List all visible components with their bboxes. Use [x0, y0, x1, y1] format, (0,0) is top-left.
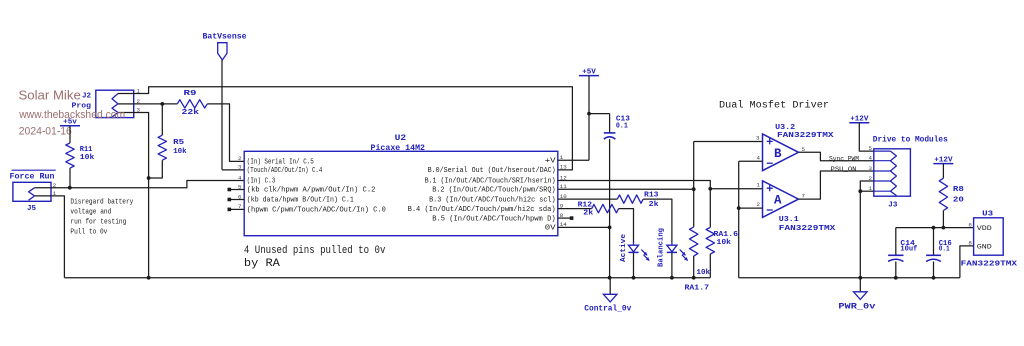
- title Dual Mosfet Driver: [719, 100, 829, 112]
- text www.thebackshed.com: [18, 109, 125, 121]
- power +12V (R8): [933, 156, 953, 164]
- svg-text:0V: 0V: [545, 225, 557, 233]
- svg-text:B.0/Serial Out (Out/hserout/DA: B.0/Serial Out (Out/hserout/DAC): [428, 167, 556, 175]
- svg-text:(Touch/ADC/Out/In) C.4: (Touch/ADC/Out/In) C.4: [247, 167, 322, 175]
- wire U3 GND: [960, 246, 974, 278]
- wire B output Sync_PWM: [799, 152, 874, 160]
- svg-text:1: 1: [137, 88, 141, 95]
- wire C14 top: [895, 228, 897, 256]
- wire J2 pin1 to U2 pin13 (serial out): [134, 87, 573, 170]
- svg-text:(In) Serial In/ C.5: (In) Serial In/ C.5: [247, 159, 314, 167]
- svg-text:B.1 (In/Out/ADC/Touch/SRI/hser: B.1 (In/Out/ADC/Touch/SRI/hserin): [425, 178, 556, 186]
- wire pwr 0v rail: [739, 277, 960, 279]
- svg-text:Force Run: Force Run: [10, 172, 55, 181]
- junction A minus: [737, 206, 741, 210]
- svg-text:10k: 10k: [717, 239, 732, 247]
- svg-text:B.2 (In/Out/ADC/Touch/pwm/SRQ): B.2 (In/Out/ADC/Touch/pwm/SRQ): [432, 186, 555, 194]
- svg-text:10k: 10k: [80, 154, 95, 162]
- svg-text:3: 3: [238, 164, 242, 171]
- wire LED Balancing cathode: [671, 253, 673, 278]
- resistor R5 10k: [158, 135, 187, 160]
- svg-text:5: 5: [869, 145, 873, 152]
- svg-text:GND: GND: [977, 243, 992, 250]
- svg-text:0.1: 0.1: [616, 123, 628, 131]
- wire +5v to R11: [69, 126, 71, 143]
- note disregard battery: [70, 198, 134, 236]
- U3 pin numbers: [968, 221, 972, 246]
- svg-text:(kb data/hpwm B/Out/In) C.1: (kb data/hpwm B/Out/In) C.1: [247, 197, 354, 205]
- capacitor C14 10uf: [888, 240, 918, 262]
- svg-text:22k: 22k: [182, 109, 200, 117]
- svg-text:1: 1: [757, 182, 761, 189]
- wire C16 bottom: [933, 262, 935, 278]
- op IC U2 Picaxe 14M2 box: [244, 135, 558, 236]
- svg-text:4 Unused pins pulled to 0v: 4 Unused pins pulled to 0v: [244, 245, 386, 257]
- U2 pin5 stub: [228, 188, 245, 192]
- svg-text:PWR_0v: PWR_0v: [838, 303, 875, 312]
- svg-text:3: 3: [869, 165, 873, 172]
- net label PSU_ON: [831, 166, 857, 174]
- svg-text:B: B: [774, 147, 782, 161]
- wire R9 to U2 pin2: [207, 104, 244, 161]
- wire RA1.7 bottom: [693, 256, 695, 278]
- text 2024-01-16: [19, 126, 72, 138]
- wire VDD line: [896, 227, 974, 229]
- svg-text:13: 13: [560, 164, 567, 171]
- svg-text:Active: Active: [620, 233, 628, 262]
- wire +12V to J3 pin5: [859, 123, 874, 151]
- wire C13 to 0V rail: [609, 139, 611, 278]
- wire A minus: [739, 207, 763, 209]
- resistor RA1.6 10k: [706, 227, 738, 254]
- junction pin14/0V: [608, 226, 612, 230]
- wire R12 to LED Active: [619, 209, 634, 243]
- svg-text:(kb clk/hpwm A/pwm/Out/In) C.2: (kb clk/hpwm A/pwm/Out/In) C.2: [247, 187, 376, 195]
- svg-text:Balancing: Balancing: [658, 228, 666, 267]
- resistor R12 2k: [578, 201, 619, 217]
- LED Balancing: [658, 228, 689, 267]
- wire J5 pin1 to ground rail: [51, 196, 64, 278]
- wire R5 bottom jog: [149, 160, 163, 178]
- svg-text:B.5 (In/Out/ADC/Touch/hpwm D): B.5 (In/Out/ADC/Touch/hpwm D): [432, 215, 555, 223]
- J5 pin numbers: [53, 182, 57, 197]
- svg-text:10uf: 10uf: [900, 246, 917, 254]
- svg-text:B.3 (In/Out/ADC/Touch/hi2c scl: B.3 (In/Out/ADC/Touch/hi2c scl): [429, 196, 556, 204]
- svg-text:Contral_0v: Contral_0v: [584, 303, 631, 313]
- junction pwr rail C16: [932, 276, 936, 280]
- svg-text:VDD: VDD: [977, 225, 992, 232]
- svg-text:voltage and: voltage and: [70, 208, 111, 216]
- svg-text:BatVsense: BatVsense: [203, 33, 247, 42]
- svg-text:Sync_PWM: Sync_PWM: [829, 156, 859, 164]
- svg-text:Disregard battery: Disregard battery: [70, 198, 134, 206]
- svg-text:4: 4: [757, 155, 761, 162]
- wire R11 bottom: [69, 168, 71, 188]
- J2 pin numbers: [137, 88, 141, 114]
- svg-text:J2: J2: [82, 93, 92, 101]
- junction pwr rail C14: [894, 276, 898, 280]
- wire R13 to LED Balancing: [643, 199, 672, 242]
- wire driver minus rail: [739, 161, 763, 277]
- svg-text:3: 3: [756, 134, 760, 141]
- svg-text:R9: R9: [184, 90, 198, 98]
- svg-text:2024-01-16: 2024-01-16: [19, 126, 72, 138]
- wire J2 pin3 to ground rail: [134, 113, 149, 278]
- connector J5: [13, 182, 51, 213]
- svg-text:R5: R5: [173, 139, 185, 147]
- net label Sync_PWM: [829, 156, 859, 164]
- svg-text:B.4 (In/Out/ADC/Touch/pwm/hi2c: B.4 (In/Out/ADC/Touch/pwm/hi2c sda): [408, 206, 556, 214]
- svg-text:U3: U3: [982, 210, 994, 218]
- svg-text:J3: J3: [888, 202, 898, 210]
- svg-text:+12V: +12V: [934, 156, 953, 164]
- wire BatVsense to U2 pin3: [222, 60, 244, 170]
- connector J3 Drive to Modules: [874, 149, 911, 210]
- svg-text:U3.1: U3.1: [779, 216, 799, 224]
- svg-text:2k: 2k: [583, 209, 593, 217]
- power +12V (J3): [849, 116, 869, 124]
- U3.2 pin numbers: [756, 134, 805, 161]
- wire C16 top: [933, 228, 935, 256]
- J3 pin numbers: [869, 145, 873, 192]
- op-amp driver U3.1 A: [763, 181, 836, 233]
- resistor RA1.7 10k: [685, 227, 711, 293]
- svg-text:10k: 10k: [697, 269, 711, 277]
- svg-text:by RA: by RA: [244, 258, 281, 270]
- wire U2 pin9 to R12: [558, 208, 592, 210]
- junction R11/J5 wire: [68, 186, 72, 190]
- junction J3 pin1: [858, 189, 862, 193]
- svg-text:J5: J5: [27, 205, 37, 213]
- wire J5 pin2 to U2 pin4: [51, 181, 244, 188]
- svg-text:run for testing: run for testing: [70, 218, 126, 226]
- capacitor C16 0.1: [926, 240, 952, 262]
- wire C14 bottom: [895, 262, 897, 278]
- svg-text:FAN3229TMX: FAN3229TMX: [961, 260, 1018, 268]
- svg-text:FAN3229TMX: FAN3229TMX: [779, 225, 836, 233]
- svg-text:2: 2: [757, 201, 761, 208]
- wire +12V to R8: [942, 164, 944, 179]
- wire J3 pin1: [860, 190, 874, 192]
- junction R5/J2pin3 wire: [147, 176, 151, 180]
- svg-text:20: 20: [953, 196, 965, 204]
- text Solar Mike: [19, 88, 81, 103]
- net flag BatVsense: [203, 33, 247, 60]
- resistor R11 10k: [66, 143, 95, 168]
- svg-text:PSU_ON: PSU_ON: [831, 166, 857, 174]
- note unused pins: [244, 245, 386, 270]
- wire A output PSU_ON: [799, 171, 874, 199]
- svg-text:RA1.6: RA1.6: [714, 231, 739, 239]
- svg-text:Solar Mike: Solar Mike: [19, 88, 81, 103]
- U2 pin6 stub: [228, 198, 245, 202]
- svg-text:R8: R8: [953, 186, 965, 194]
- svg-text:A: A: [774, 194, 782, 208]
- svg-text:Drive to Modules: Drive to Modules: [873, 134, 948, 144]
- junction B.2/B+ wire: [692, 187, 696, 191]
- resistor R8 20: [939, 178, 964, 210]
- junction R5 top: [160, 102, 164, 106]
- svg-text:2: 2: [238, 155, 242, 162]
- junction C16/VDD: [932, 226, 936, 230]
- junction rail LED Active: [632, 276, 636, 280]
- wire U2 pin11 (B.2): [558, 188, 694, 190]
- svg-text:R11: R11: [80, 146, 93, 154]
- resistor R9 22k: [177, 90, 207, 117]
- svg-text:6: 6: [968, 221, 972, 228]
- svg-text:U2: U2: [395, 135, 407, 143]
- wire RA1.6 bottom: [709, 254, 711, 278]
- U2 left pin labels: [247, 159, 386, 215]
- svg-text:(hpwm C/pwm/Touch/ADC/Out/In): (hpwm C/pwm/Touch/ADC/Out/In) C.0: [247, 207, 386, 215]
- U2 pin numbers: [238, 154, 567, 228]
- wire U2 pin1 to +5V: [558, 76, 589, 161]
- svg-text:10k: 10k: [173, 148, 187, 156]
- junction rail J2pin3: [147, 276, 151, 280]
- svg-text:Picaxe 14M2: Picaxe 14M2: [371, 145, 426, 153]
- wire U2 pin14 to 0V drop: [558, 226, 610, 228]
- svg-text:4: 4: [869, 155, 873, 162]
- junction rail 0V: [608, 276, 612, 280]
- junction pwr rail J3: [858, 276, 862, 280]
- svg-text:+12V: +12V: [850, 116, 869, 124]
- wire B.2 to driver B + input: [694, 142, 763, 227]
- power +5v (R11): [60, 119, 80, 127]
- wire U2 pin10 to R13: [558, 198, 618, 200]
- wire B.1 to driver A + input: [710, 188, 762, 190]
- junction B.1/A+ wire: [708, 187, 712, 191]
- svg-text:R12: R12: [578, 201, 593, 209]
- svg-text:Dual Mosfet Driver: Dual Mosfet Driver: [719, 100, 829, 112]
- svg-text:RA1.7: RA1.7: [685, 285, 710, 293]
- capacitor C13 0.1: [604, 115, 631, 139]
- junction R8/VDD: [942, 226, 946, 230]
- power +5V: [579, 68, 599, 76]
- svg-text:(In) C.3: (In) C.3: [247, 178, 275, 186]
- U2 pin7 stub: [228, 208, 245, 212]
- ground PWR_0v: [838, 278, 875, 312]
- svg-text:+5V: +5V: [582, 68, 596, 76]
- op-amp driver U3.2 B: [763, 124, 835, 170]
- wire J2 pin2 to R9: [134, 103, 178, 105]
- svg-text:Pull to 0v: Pull to 0v: [70, 228, 108, 236]
- U2 right pin labels: [408, 158, 557, 233]
- ground Contral_0v: [584, 278, 631, 314]
- wire R8 to VDD: [942, 211, 944, 228]
- LED Active: [620, 233, 650, 262]
- U2 pin8 stub: [558, 216, 574, 220]
- wire U2 pin12 (B.1) to RA1.6: [558, 181, 711, 228]
- junction rail LED Balancing: [670, 276, 674, 280]
- op IC U3 FAN3229TMX box: [961, 210, 1018, 268]
- wire J3 pin2 to pwr rail: [860, 181, 874, 278]
- wire control 0v rail: [64, 277, 710, 279]
- svg-text:2k: 2k: [649, 201, 659, 209]
- svg-text:0.1: 0.1: [939, 246, 950, 254]
- svg-text:FAN3229TMX: FAN3229TMX: [777, 132, 834, 140]
- svg-text:4: 4: [238, 174, 242, 181]
- svg-text:+V: +V: [545, 158, 557, 166]
- junction rail RA1.7: [692, 276, 696, 280]
- resistor R13 2k: [617, 192, 659, 209]
- label Drive to Modules: [873, 134, 948, 144]
- connector J2 Prog: [72, 90, 134, 117]
- net label Force Run: [10, 170, 56, 181]
- U3.1 pin numbers: [757, 182, 806, 209]
- junction +5V/C13: [587, 112, 591, 116]
- wire LED Active cathode: [633, 253, 635, 278]
- wire R5 top: [161, 104, 163, 135]
- wire +5V to C13: [589, 114, 610, 133]
- svg-text:R13: R13: [644, 192, 659, 200]
